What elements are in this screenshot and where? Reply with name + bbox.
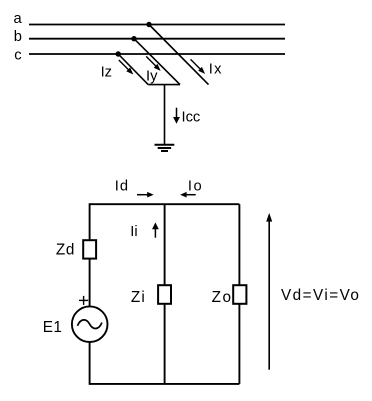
current arrow Id bbox=[137, 192, 154, 198]
wire middle branch lower bbox=[164, 304, 166, 384]
svg-text:Iz: Iz bbox=[101, 65, 112, 81]
svg-text:Icc: Icc bbox=[182, 110, 201, 126]
wire phase a bbox=[29, 24, 285, 26]
svg-text:Vd=Vi=Vo: Vd=Vi=Vo bbox=[281, 287, 360, 304]
wire bottom bbox=[90, 383, 240, 385]
wire phase c bbox=[29, 53, 285, 55]
svg-text:E1: E1 bbox=[43, 319, 63, 336]
current arrow Icc bbox=[173, 108, 180, 124]
impedance Zi bbox=[158, 285, 171, 304]
wire to ground bbox=[164, 85, 166, 146]
wire tap from phase c bbox=[118, 54, 148, 85]
wire left branch lower bbox=[89, 342, 91, 385]
current arrow Iy bbox=[146, 56, 161, 71]
wire top bbox=[90, 203, 240, 205]
svg-text:Ii: Ii bbox=[130, 224, 137, 240]
sine wave of E1 bbox=[78, 320, 102, 329]
voltage arrow Vd=Vi=Vo bbox=[266, 213, 272, 370]
wire right branch lower bbox=[238, 304, 240, 384]
svg-text:b: b bbox=[14, 29, 22, 45]
wire middle branch upper bbox=[164, 204, 166, 285]
svg-text:c: c bbox=[14, 47, 21, 63]
junction dot on phase a bbox=[146, 22, 151, 27]
svg-text:Io: Io bbox=[188, 179, 203, 195]
svg-text:Zd: Zd bbox=[56, 241, 75, 258]
svg-text:Zo: Zo bbox=[212, 289, 233, 306]
impedance Zd bbox=[83, 240, 96, 258]
wire left branch upper bbox=[89, 203, 91, 240]
wire tap from phase b bbox=[134, 39, 180, 85]
svg-text:Zi: Zi bbox=[131, 289, 146, 306]
svg-text:Iy: Iy bbox=[146, 69, 158, 85]
source E1 bbox=[72, 306, 108, 342]
junction dot on phase c bbox=[116, 51, 121, 56]
ground symbol bbox=[155, 145, 175, 151]
current arrow Ii bbox=[152, 222, 159, 237]
wire right branch upper bbox=[238, 204, 240, 285]
wire fault bar bbox=[148, 84, 180, 86]
wire tap from phase a bbox=[149, 25, 209, 85]
wire phase b bbox=[29, 38, 285, 40]
current arrow Ix bbox=[191, 59, 206, 74]
junction dot on phase b bbox=[131, 36, 136, 41]
svg-text:a: a bbox=[14, 11, 23, 27]
polarity plus of E1 bbox=[79, 296, 88, 305]
impedance Zo bbox=[233, 285, 246, 304]
svg-text:Id: Id bbox=[115, 179, 129, 195]
current arrow Io bbox=[180, 192, 196, 198]
current arrow Iz bbox=[119, 60, 134, 75]
svg-text:Ix: Ix bbox=[209, 61, 223, 77]
wire left branch middle bbox=[89, 259, 91, 306]
